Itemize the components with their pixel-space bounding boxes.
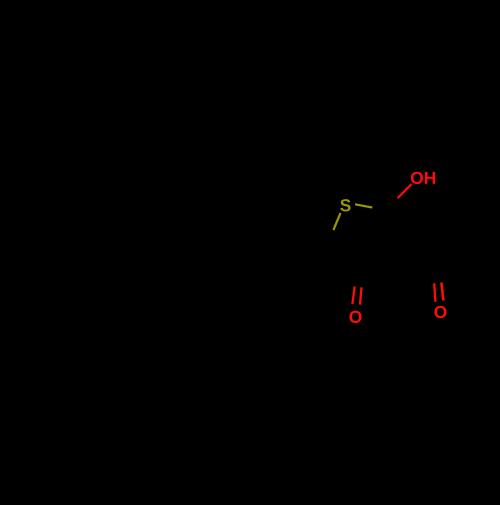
acetyl C=O double bond line 1 (oxygen half) xyxy=(434,283,435,302)
bond C2-O3 hydroxyl (oxygen half) xyxy=(398,184,412,198)
ring ketone C4=O double bond line 1 (oxygen half) xyxy=(352,287,354,305)
bond S1-C5 (sulfur half) xyxy=(333,213,340,230)
ring ketone C4=O double bond line 2 (oxygen half) xyxy=(360,287,362,304)
bond S1-C2 (sulfur half) xyxy=(355,204,372,207)
ring ketone O label xyxy=(349,311,361,323)
atom S1 (ring sulfur) label xyxy=(340,199,350,211)
hydroxyl OH label xyxy=(411,172,435,184)
acetyl O label xyxy=(434,306,446,318)
acetyl C=O double bond line 2 (oxygen half) xyxy=(441,283,443,301)
